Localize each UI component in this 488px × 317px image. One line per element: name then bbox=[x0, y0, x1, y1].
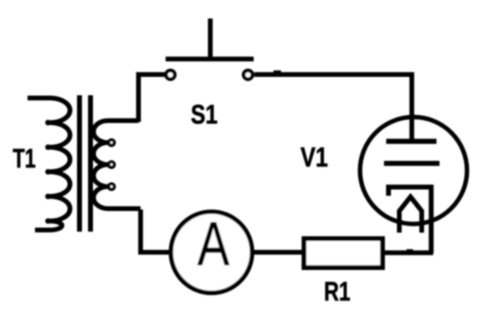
S1 actuator stem bbox=[208, 19, 213, 60]
wire secondary-top to switch bbox=[139, 75, 165, 123]
primary winding of T1 bbox=[28, 98, 71, 230]
resistor R1 bbox=[304, 239, 383, 268]
S1 actuator bar bbox=[166, 57, 254, 62]
wire resistor to cathode bbox=[384, 250, 434, 255]
secondary cusp loops bbox=[109, 140, 115, 190]
wire secondary-bottom to ammeter bbox=[141, 210, 170, 253]
switch S1 bbox=[166, 19, 254, 80]
wire ammeter to resistor bbox=[253, 250, 304, 255]
V1 envelope bbox=[360, 117, 467, 224]
transformer T1 bbox=[28, 95, 141, 231]
V1 grid bar bbox=[384, 161, 440, 166]
ammeter A bbox=[171, 210, 252, 293]
core line right bbox=[88, 95, 93, 231]
svg-text:T1: T1 bbox=[13, 143, 36, 173]
core line left bbox=[77, 95, 82, 231]
primary cusp dots bbox=[45, 120, 51, 224]
tube V1 bbox=[360, 117, 467, 253]
S1 left terminal bbox=[166, 70, 175, 79]
junction nub on bottom wire bbox=[407, 249, 414, 252]
V1 anode bar bbox=[386, 139, 436, 144]
wire switch to tube plate bbox=[254, 75, 412, 140]
secondary winding of T1 bbox=[94, 121, 141, 209]
S1 right terminal bbox=[244, 70, 253, 79]
V1 filament bbox=[399, 197, 421, 233]
junction nub on top wire bbox=[274, 70, 282, 73]
svg-text:S1: S1 bbox=[191, 99, 218, 129]
ammeter body bbox=[171, 212, 252, 293]
svg-text:V1: V1 bbox=[301, 142, 329, 173]
svg-text:A: A bbox=[197, 210, 229, 279]
svg-text:R1: R1 bbox=[324, 277, 351, 307]
V1 cathode bbox=[389, 187, 432, 253]
